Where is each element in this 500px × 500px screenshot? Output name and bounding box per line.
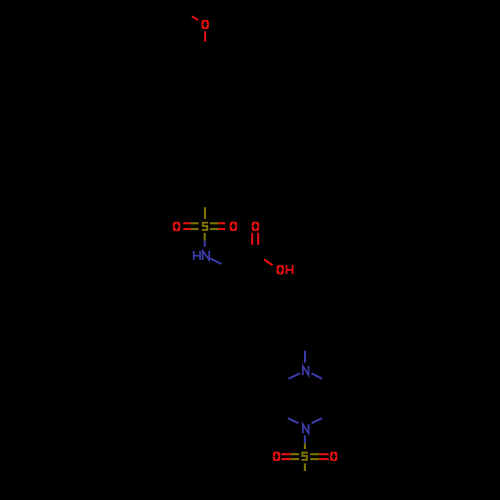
atom label O7 sulfonyl-2 right oxygen xyxy=(330,452,337,461)
atom label S1 sulfonamide sulfur xyxy=(202,223,208,230)
atom label O3 sulfonyl-1 right oxygen xyxy=(230,222,237,231)
atom label O5 hydroxyl oxygen xyxy=(277,265,284,274)
bond CH3-O1 methoxy methyl (O-colored half) xyxy=(192,16,198,20)
double bond S1=O2 upper line S half xyxy=(191,222,199,224)
atom label O2 sulfonyl-1 left oxygen xyxy=(173,222,180,231)
bond N3-S2 S-colored half xyxy=(304,443,306,449)
atom label N2 piperazine top nitrogen xyxy=(303,366,309,375)
double bond S1=O3 upper line O half xyxy=(218,222,225,224)
double bond S1=O2 upper line O half xyxy=(183,222,191,224)
double bond S2=O7 lower line S half xyxy=(310,458,319,460)
bond O1-C1 chain (O-colored half) xyxy=(204,31,206,41)
bond S2-CH3 S-colored half xyxy=(304,463,306,471)
bond C14-N2 N-colored half xyxy=(304,351,306,363)
atom label N3 piperazine bottom nitrogen xyxy=(303,424,309,433)
atom label O1 methoxy oxygen xyxy=(202,20,209,29)
bond C7-S1 (S-colored half) xyxy=(204,207,206,219)
atom label O6 sulfonyl-2 left oxygen xyxy=(273,452,280,461)
double bond S2=O6 upper line O half xyxy=(281,453,290,455)
double bond S2=O6 lower line S half xyxy=(291,458,300,460)
double bond C11=O4 left line O half xyxy=(251,233,253,245)
bond S1-N1 N-colored half xyxy=(204,241,206,247)
double bond S1=O3 lower line S half xyxy=(210,228,218,230)
double bond S2=O7 upper line S half xyxy=(310,453,319,455)
atom label O4 carboxyl carbonyl oxygen xyxy=(252,222,259,231)
bond N3-S2 N-colored half xyxy=(304,435,306,443)
bond S1-N1 S-colored half xyxy=(204,233,206,241)
atom label H of OH hydroxyl xyxy=(287,265,293,274)
bond C11-O5 hydroxyl O-colored half xyxy=(264,260,273,266)
double bond S1=O3 upper line S half xyxy=(210,222,218,224)
atom label H of HN sulfonamide xyxy=(194,251,200,260)
bond N2-C19 ring upper-right N half xyxy=(312,373,323,379)
double bond S2=O6 upper line S half xyxy=(291,453,300,455)
atom label N1 sulfonamide nitrogen xyxy=(203,251,210,260)
double bond S2=O6 lower line O half xyxy=(281,458,290,460)
double bond S1=O3 lower line O half xyxy=(218,228,225,230)
bond N2-C15 ring upper-left N half xyxy=(289,373,300,379)
double bond S1=O2 lower line S half xyxy=(191,228,199,230)
atom label S2 methanesulfonyl sulfur xyxy=(301,453,307,460)
double bond S1=O2 lower line O half xyxy=(183,228,191,230)
double bond C11=O4 right line O half xyxy=(257,233,259,245)
bond N3-C16 ring lower-left N half xyxy=(288,418,299,423)
bond N3-C18 ring lower-right N half xyxy=(312,418,323,423)
double bond S2=O7 upper line O half xyxy=(319,453,329,455)
double bond S2=O7 lower line O half xyxy=(319,458,329,460)
bond N1-Calpha N-colored half xyxy=(210,258,221,264)
